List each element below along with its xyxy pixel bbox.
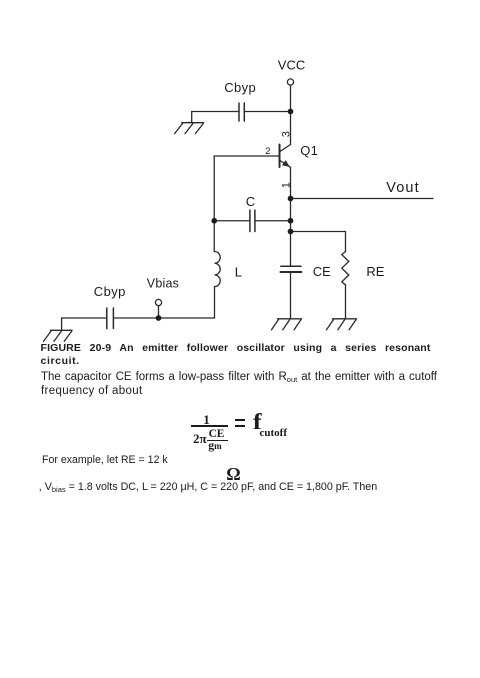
svg-text:CE: CE: [313, 264, 331, 279]
svg-text:Vout: Vout: [386, 180, 419, 196]
svg-text:1: 1: [280, 182, 292, 188]
svg-text:2: 2: [265, 146, 270, 157]
svg-text:3: 3: [280, 131, 292, 137]
svg-text:L: L: [235, 265, 242, 280]
svg-text:Vbias: Vbias: [147, 276, 179, 290]
svg-text:Cbyp: Cbyp: [94, 284, 126, 299]
svg-text:RE: RE: [366, 264, 384, 279]
svg-text:Cbyp: Cbyp: [224, 80, 256, 95]
svg-text:Q1: Q1: [300, 143, 318, 158]
svg-text:C: C: [246, 194, 255, 209]
svg-text:VCC: VCC: [278, 57, 305, 72]
